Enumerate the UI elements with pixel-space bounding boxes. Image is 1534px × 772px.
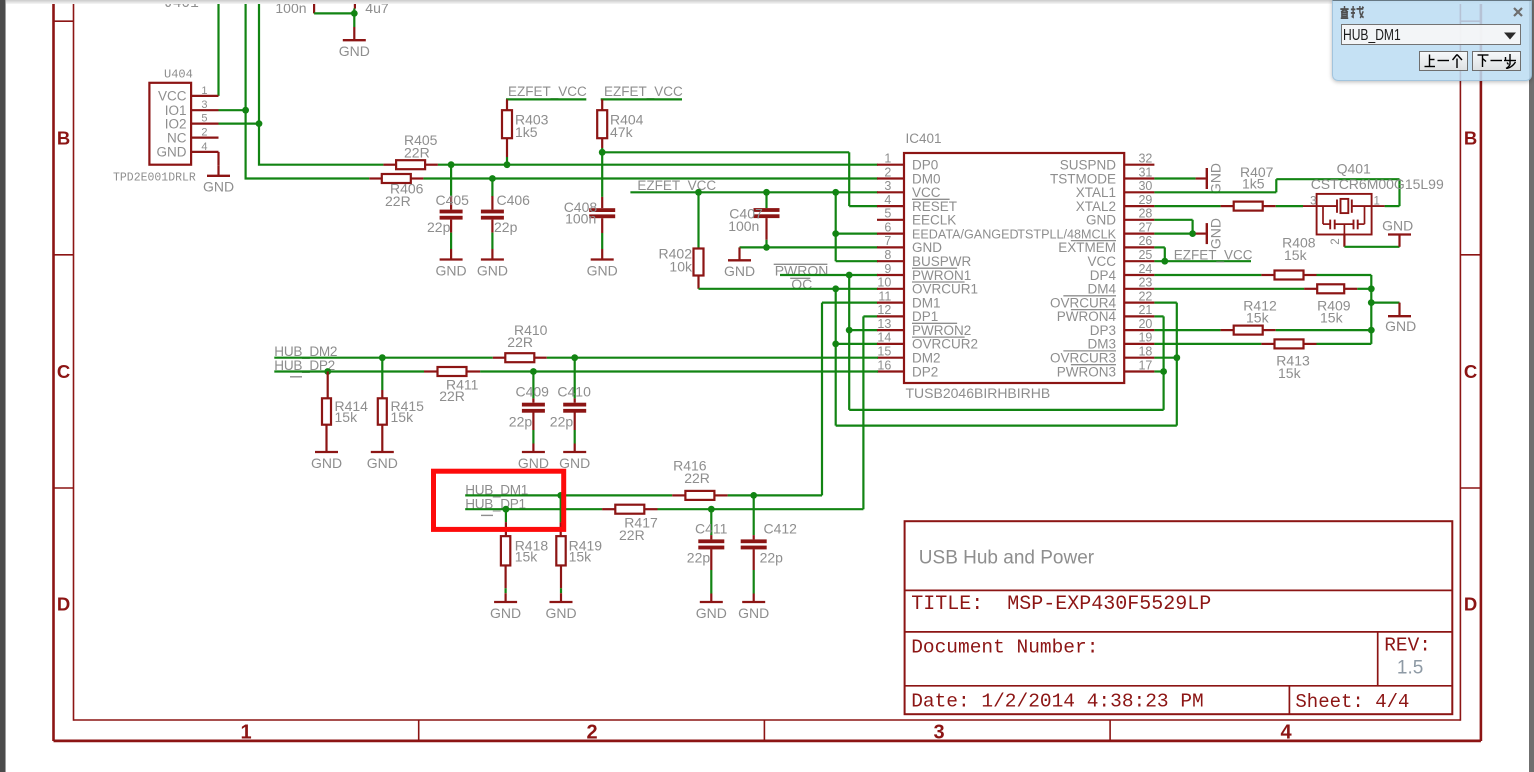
svg-text:6: 6	[884, 220, 891, 234]
search highlight box HUB_DM1/HUB_DP1	[434, 471, 564, 529]
junction	[832, 285, 839, 292]
capacitor C407 100n	[728, 192, 779, 247]
window left edge strip	[0, 0, 5, 772]
junction	[504, 161, 511, 168]
wire DP4 to GND bus	[1317, 275, 1372, 344]
junction	[708, 506, 715, 513]
wire C408 to RESET node	[601, 152, 603, 197]
svg-text:OVRCUR1: OVRCUR1	[912, 282, 978, 297]
svg-text:4: 4	[884, 193, 891, 207]
wire HUB_DM1 row	[465, 494, 822, 496]
resistor R412 15k	[1221, 298, 1277, 335]
wire DM4 to GND bus	[1357, 288, 1371, 290]
svg-text:22R: 22R	[507, 334, 533, 350]
svg-text:2: 2	[586, 722, 597, 744]
pin 10 OVRCUR1	[877, 276, 978, 297]
pin 11 DM1	[877, 289, 941, 310]
capacitor C409 22p	[509, 372, 549, 471]
svg-text:GND: GND	[518, 455, 549, 471]
wire DM1 (pin 11) to HUB_DM1	[822, 303, 878, 496]
svg-text:GND: GND	[203, 179, 234, 195]
svg-text:EZFET_VCC: EZFET_VCC	[604, 84, 683, 99]
svg-text:GND: GND	[339, 43, 370, 59]
wire DP3 to GND bus	[1276, 329, 1372, 331]
ground (rotated, pin 27)	[1196, 218, 1224, 249]
junction	[695, 189, 702, 196]
pin 1 DP0	[877, 152, 938, 173]
svg-text:GND: GND	[157, 145, 187, 160]
pin 30 XTAL1	[1076, 179, 1155, 200]
net label PWRON (active low)	[774, 262, 829, 278]
svg-text:Q401: Q401	[1337, 160, 1371, 176]
svg-text:GND: GND	[311, 455, 342, 471]
svg-text:C405: C405	[436, 192, 470, 208]
wire DP1 (pin 12) to HUB_DP1	[863, 316, 878, 509]
svg-text:GND: GND	[367, 455, 398, 471]
svg-text:GND: GND	[477, 262, 508, 278]
pin 21 PWRON4	[1057, 303, 1155, 324]
svg-text:17: 17	[1138, 358, 1152, 372]
resistor R419 15k	[556, 495, 602, 593]
svg-text:C406: C406	[497, 192, 531, 208]
junction	[571, 354, 578, 361]
pin 19 DM3	[1087, 331, 1154, 352]
svg-text:22R: 22R	[684, 470, 710, 486]
svg-text:3: 3	[1310, 195, 1316, 207]
svg-text:5: 5	[884, 207, 891, 221]
ground (Q401 pin 2, inverted)	[1344, 218, 1413, 247]
svg-text:XTAL1: XTAL1	[1076, 185, 1116, 200]
svg-text:22p: 22p	[427, 219, 451, 235]
wire J401 DP line to R405	[259, 0, 383, 165]
resistor R406 22R	[369, 174, 423, 209]
svg-text:22p: 22p	[550, 413, 574, 429]
ground (R418)	[490, 593, 521, 621]
junction	[448, 161, 455, 168]
junction	[530, 368, 537, 375]
ground (pulldown bus)	[1385, 303, 1416, 334]
wire GND tap	[1371, 302, 1399, 304]
svg-text:BUSPWR: BUSPWR	[912, 254, 972, 269]
svg-text:23: 23	[1138, 276, 1152, 290]
junction	[1368, 327, 1375, 334]
svg-text:10: 10	[877, 276, 891, 290]
svg-text:B: B	[1464, 128, 1477, 149]
net label HUB_DP2	[274, 358, 335, 377]
svg-text:4: 4	[201, 141, 207, 153]
svg-text:15: 15	[877, 345, 891, 359]
pin 17 PWRON3	[1057, 358, 1155, 379]
svg-text:TSTMODE: TSTMODE	[1050, 171, 1116, 186]
wire PWRON2 (pin 13)	[849, 329, 878, 331]
junction	[599, 149, 606, 156]
svg-text:PWRON2: PWRON2	[912, 323, 971, 338]
svg-text:15k: 15k	[569, 548, 593, 564]
svg-text:C410: C410	[557, 383, 591, 399]
wire DM4 (pin 23)	[1154, 288, 1304, 290]
svg-text:47k: 47k	[610, 124, 634, 140]
svg-text:VCC: VCC	[912, 185, 941, 200]
svg-text:TITLE: MSP-EXP430F5529LP: TITLE: MSP-EXP430F5529LP	[911, 593, 1211, 616]
pin 31 TSTMODE	[1050, 165, 1154, 186]
wire TSTPLL (pin 27) to GND	[1154, 233, 1195, 235]
svg-text:31: 31	[1138, 165, 1152, 179]
wire TSTMODE (pin 31) to GND	[1154, 177, 1195, 179]
svg-text:18: 18	[1138, 345, 1152, 359]
svg-text:DP2: DP2	[912, 364, 938, 379]
net label HUB_DM1 (search hit)	[465, 483, 528, 498]
title block	[905, 521, 1453, 714]
svg-text:REV:: REV:	[1384, 635, 1431, 657]
junction	[832, 230, 839, 237]
svg-text:GND: GND	[912, 240, 942, 255]
svg-text:PWRON3: PWRON3	[1057, 364, 1116, 379]
svg-text:100n: 100n	[565, 211, 596, 227]
svg-text:DP3: DP3	[1090, 323, 1116, 338]
svg-text:C412: C412	[764, 521, 798, 537]
pin 29 XTAL2	[1076, 193, 1155, 214]
svg-text:27: 27	[1138, 220, 1152, 234]
wire DP0 to IC pin 1	[438, 164, 878, 166]
IC U404 TPD2E001DRLR	[113, 68, 219, 185]
junction	[256, 120, 263, 127]
svg-text:GND: GND	[1382, 218, 1413, 234]
svg-text:OVRCUR2: OVRCUR2	[912, 337, 978, 352]
resistor R415 15k	[378, 358, 424, 442]
wire R404 to RESET (pin 4)	[602, 148, 878, 206]
svg-text:14: 14	[877, 331, 891, 345]
junction	[503, 506, 510, 513]
svg-text:GND: GND	[545, 605, 576, 621]
supply EZFET_VCC (pin 25)	[1154, 247, 1252, 262]
svg-text:DP4: DP4	[1090, 268, 1117, 283]
capacitor C412 22p	[738, 495, 797, 620]
svg-text:SUSPND: SUSPND	[1060, 158, 1117, 173]
pin 2 NC	[167, 127, 219, 146]
svg-text:10k: 10k	[669, 259, 693, 275]
window right scrollbar strip	[1529, 0, 1534, 772]
svg-text:22R: 22R	[385, 193, 411, 209]
svg-text:1: 1	[201, 85, 207, 97]
svg-text:IO2: IO2	[165, 116, 187, 131]
svg-text:1.5: 1.5	[1397, 657, 1423, 678]
svg-text:IC401: IC401	[906, 131, 942, 146]
pin 27 TSTPLL/48MCLK	[1017, 220, 1154, 241]
wire DP4 (pin 24)	[1154, 274, 1261, 276]
svg-text:2: 2	[884, 165, 891, 179]
wire J401 to U404 VCC	[217, 0, 219, 96]
resistor R404 47k	[597, 110, 643, 148]
svg-text:DM2: DM2	[912, 351, 941, 366]
sheet title text	[919, 548, 1095, 569]
svg-text:B: B	[57, 128, 70, 149]
ground (R415)	[367, 442, 398, 471]
wire GND (pin 28)	[1154, 220, 1192, 234]
wire OVRCUR2 (pin 14)	[836, 343, 878, 345]
resistor R407 1k5	[1154, 164, 1275, 210]
svg-text:100n: 100n	[728, 218, 759, 234]
svg-text:15k: 15k	[515, 548, 539, 564]
svg-text:USB Hub and Power: USB Hub and Power	[919, 548, 1095, 569]
junction	[1368, 299, 1375, 306]
junction	[1161, 258, 1168, 265]
capacitor C408 100n	[564, 197, 616, 249]
resistor R411 22R	[424, 367, 480, 404]
pin 16 DP2	[877, 358, 938, 379]
svg-text:11: 11	[878, 289, 891, 303]
ground (pin 7)	[724, 247, 755, 279]
resistor R403 1k5	[502, 110, 549, 157]
svg-text:OVRCUR4: OVRCUR4	[1050, 295, 1117, 310]
wire R403 to DP0	[506, 157, 508, 165]
svg-text:EZFET_VCC: EZFET_VCC	[508, 84, 587, 99]
junction	[763, 189, 770, 196]
find dialog panel	[1332, 0, 1532, 81]
pin 25 VCC	[1087, 248, 1154, 269]
pin 1 VCC	[158, 85, 219, 104]
pin 3 VCC	[877, 179, 941, 200]
svg-text:GND: GND	[587, 262, 618, 278]
svg-text:22R: 22R	[404, 145, 430, 161]
pin 7 GND	[877, 234, 942, 255]
wire J401 DM line to R406	[246, 0, 370, 179]
svg-text:1: 1	[1374, 195, 1380, 207]
svg-text:EECLK: EECLK	[912, 213, 956, 228]
svg-text:CSTCR6M00G15L99: CSTCR6M00G15L99	[1311, 176, 1444, 192]
svg-text:1: 1	[884, 152, 891, 166]
resistor R417 22R	[602, 505, 658, 543]
pin 2 DM0	[877, 165, 941, 186]
find dialog button Next (Chinese)	[1472, 51, 1521, 71]
svg-text:2: 2	[201, 127, 207, 139]
capacitor C410 22p	[550, 358, 591, 471]
junction	[557, 492, 564, 499]
svg-text:EZFET_VCC: EZFET_VCC	[637, 178, 716, 193]
svg-text:15k: 15k	[1284, 247, 1308, 263]
junction	[1189, 230, 1196, 237]
net label HUB_DM2	[274, 344, 337, 359]
svg-text:GND: GND	[724, 263, 755, 279]
svg-text:15k: 15k	[391, 409, 415, 425]
svg-text:30: 30	[1138, 179, 1152, 193]
wire DM3 to GND bus	[1317, 343, 1372, 345]
wire OVRCUR4/OVRCUR3 (pins 22,18)	[1154, 303, 1176, 426]
svg-text:20: 20	[1138, 317, 1152, 331]
ground (C408)	[587, 249, 618, 278]
capacitor C405 22p	[427, 165, 469, 279]
junction	[1160, 368, 1167, 375]
resistor R405 22R	[383, 132, 438, 169]
junction	[1368, 285, 1375, 292]
svg-text:22p: 22p	[760, 549, 784, 565]
pin 22 OVRCUR4	[1050, 289, 1154, 310]
svg-text:GND: GND	[696, 605, 727, 621]
svg-text:4: 4	[1280, 722, 1292, 744]
junction	[489, 175, 496, 182]
pin 24 DP4	[1090, 262, 1155, 283]
pin 28 GND	[1086, 207, 1154, 228]
svg-text:15k: 15k	[1278, 365, 1302, 381]
svg-text:GND: GND	[1385, 318, 1416, 334]
resistor R402 10k	[659, 192, 704, 288]
wire GND to IC pin 7	[740, 246, 879, 248]
svg-text:VCC: VCC	[158, 89, 187, 104]
svg-text:24: 24	[1138, 262, 1152, 276]
capacitor C406 22p	[477, 179, 530, 279]
svg-text:HUB_DM1: HUB_DM1	[1343, 26, 1401, 43]
svg-text:EXTMEM: EXTMEM	[1058, 240, 1116, 255]
svg-text:1k5: 1k5	[515, 124, 538, 140]
wire PWRON net	[780, 275, 1164, 410]
ground	[339, 27, 370, 59]
svg-text:25: 25	[1138, 248, 1152, 262]
capacitor 100n (partial)	[275, 0, 354, 16]
resistor R416 22R	[672, 457, 727, 500]
ground (U404 pin 4)	[203, 152, 234, 195]
svg-text:26: 26	[1138, 234, 1152, 248]
wire to GND	[353, 13, 355, 27]
svg-text:8: 8	[884, 248, 891, 262]
resistor R408 15k	[1261, 234, 1316, 279]
svg-text:PWRON1: PWRON1	[912, 268, 971, 283]
pin 3 IO1	[165, 99, 219, 118]
pin 6 EEDATA/GANGED	[877, 220, 1019, 241]
crystal Q401 CSTCR6M00G15L99	[1303, 160, 1444, 244]
pin 18 OVRCUR3	[1050, 345, 1154, 366]
svg-text:7: 7	[884, 234, 891, 248]
pin 26 EXTMEM	[1058, 234, 1154, 255]
find dialog button Previous (Chinese)	[1419, 51, 1468, 71]
svg-text:32: 32	[1138, 152, 1152, 166]
supply EZFET_VCC (R403)	[506, 84, 587, 110]
svg-text:D: D	[1464, 594, 1477, 615]
svg-text:VCC: VCC	[1087, 254, 1116, 269]
wire DP3 (pin 20)	[1154, 329, 1220, 331]
svg-text:28: 28	[1138, 207, 1152, 221]
svg-text:DP0: DP0	[912, 158, 938, 173]
find dialog dropdown arrow	[1502, 31, 1518, 41]
svg-text:DM1: DM1	[912, 295, 941, 310]
wire HUB_DM2 to IC pin 15	[274, 357, 878, 359]
wire HUB_DP1 row	[465, 508, 863, 510]
junction	[763, 244, 770, 251]
svg-text:Date: 1/2/2014 4:38:23 PM: Date: 1/2/2014 4:38:23 PM	[911, 690, 1204, 712]
ground (R419)	[545, 593, 576, 621]
pin 20 DP3	[1090, 317, 1155, 338]
svg-text:GND: GND	[1086, 213, 1116, 228]
svg-text:22R: 22R	[619, 527, 645, 543]
junction	[832, 341, 839, 348]
wire DM3 (pin 19)	[1154, 343, 1261, 345]
net label HUB_DP1 (search hit)	[465, 497, 526, 516]
svg-text:15k: 15k	[1246, 310, 1270, 326]
REV field	[1384, 635, 1431, 679]
svg-text:22: 22	[1138, 289, 1152, 303]
ground (R414)	[311, 442, 342, 471]
svg-text:15k: 15k	[335, 409, 359, 425]
svg-text:U404: U404	[164, 68, 193, 82]
find dialog search text HUB_DM1	[1343, 26, 1423, 44]
svg-text:C411: C411	[695, 521, 728, 537]
TITLE field	[911, 593, 1211, 616]
pin 13 PWRON2	[877, 317, 971, 338]
find dialog close button	[1513, 7, 1523, 17]
pin 4 RESET	[877, 193, 957, 214]
svg-text:3: 3	[933, 722, 944, 744]
svg-text:1: 1	[240, 722, 251, 744]
wire EXTMEM (pin 26) to VCC	[1154, 247, 1164, 261]
pin 32 SUSPND	[1060, 152, 1155, 173]
svg-text:DM4: DM4	[1087, 282, 1116, 297]
svg-text:Document Number:: Document Number:	[911, 637, 1098, 659]
svg-text:TPD2E001DRLR: TPD2E001DRLR	[113, 172, 196, 185]
svg-text:22p: 22p	[494, 219, 518, 235]
resistor R418 15k	[501, 509, 548, 593]
svg-text:GND: GND	[1208, 218, 1224, 249]
svg-text:22p: 22p	[687, 549, 711, 565]
svg-text:DM3: DM3	[1087, 337, 1116, 352]
wire XTAL1 (pin 30) to Q401 pin 1	[1154, 179, 1399, 206]
junction	[846, 272, 853, 279]
svg-text:3: 3	[884, 179, 891, 193]
wire U404 IO1 to DM net	[219, 109, 246, 111]
wire HUB_DP2 to IC pin 16	[274, 370, 878, 372]
junction	[324, 368, 331, 375]
svg-text:NC: NC	[167, 130, 187, 145]
pin 23 DM4	[1087, 276, 1154, 297]
capacitor C411 22p	[687, 509, 728, 621]
resistor R410 22R	[493, 322, 548, 362]
resistor R409 15k	[1304, 284, 1357, 325]
supply EZFET_VCC (R404)	[601, 84, 683, 110]
pin 9 PWRON1	[877, 262, 971, 283]
pin 12 DP1	[877, 303, 938, 324]
net label OC (active low)	[790, 276, 812, 292]
wire XTAL2 to Q401 pin 3	[1276, 205, 1303, 207]
IC IC401 TUSB2046BIRHBIRHB	[877, 131, 1154, 401]
svg-text:12: 12	[877, 303, 891, 317]
svg-text:D: D	[57, 594, 70, 615]
Sheet field	[1295, 691, 1409, 713]
resistor R414 15k	[322, 372, 368, 442]
svg-text:9: 9	[884, 262, 891, 276]
Date field	[911, 690, 1204, 712]
svg-text:GND: GND	[436, 262, 467, 278]
svg-text:21: 21	[1138, 303, 1152, 317]
svg-text:GND: GND	[490, 605, 521, 621]
pin 15 DM2	[877, 345, 941, 366]
svg-text:DM0: DM0	[912, 171, 941, 186]
svg-text:GND: GND	[738, 605, 769, 621]
svg-text:3: 3	[201, 99, 207, 111]
pin 14 OVRCUR2	[877, 331, 978, 352]
svg-text:22p: 22p	[509, 413, 533, 429]
junction	[242, 107, 249, 114]
svg-text:C: C	[1464, 361, 1477, 382]
pin 5 IO2	[165, 113, 219, 132]
pin 8 BUSPWR	[877, 248, 972, 269]
svg-text:29: 29	[1138, 193, 1152, 207]
junction	[351, 10, 358, 17]
svg-text:15k: 15k	[1320, 310, 1344, 326]
ground (rotated, pin 31)	[1196, 163, 1224, 194]
find dialog title (Chinese: Find)	[1340, 6, 1367, 20]
svg-text:C: C	[57, 361, 70, 382]
capacitor 4u7 (partial)	[346, 0, 389, 16]
svg-text:TUSB2046BIRHBIRHB: TUSB2046BIRHBIRHB	[906, 385, 1051, 401]
pin 4 GND	[157, 141, 219, 160]
svg-text:2: 2	[1330, 238, 1342, 244]
